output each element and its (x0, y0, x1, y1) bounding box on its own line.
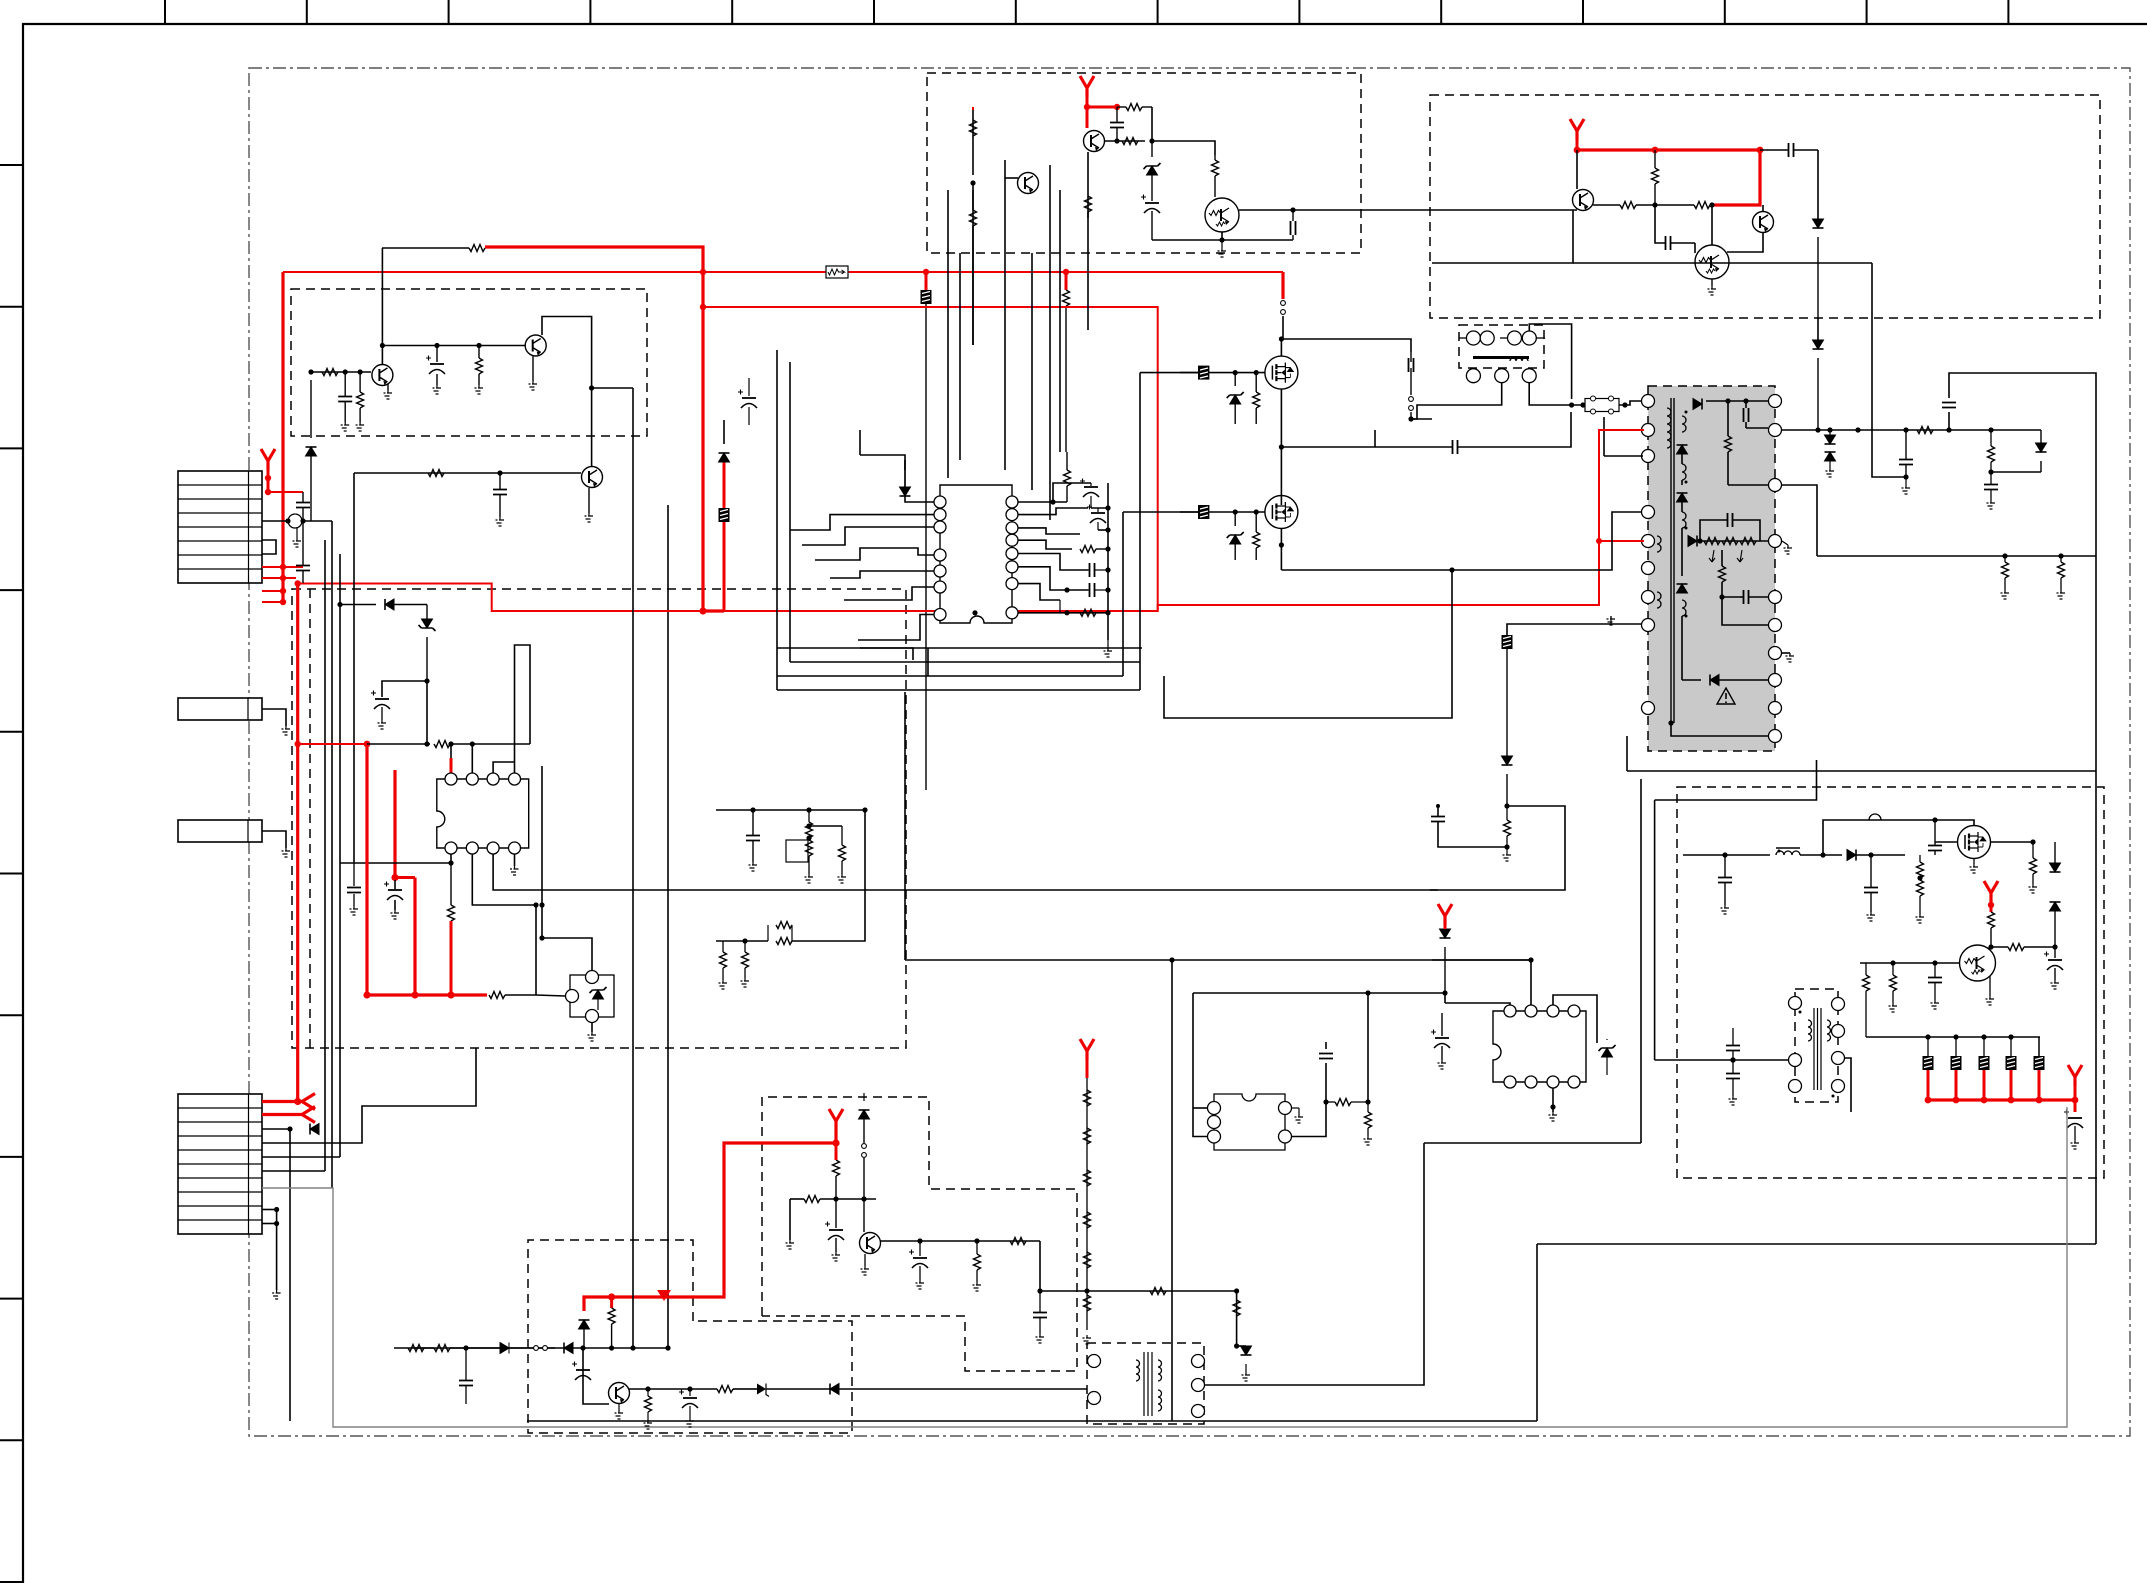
red Y mark (5V) (2068, 1065, 2082, 1086)
long h y890 (698, 889, 1438, 891)
wire y556 (1817, 555, 2096, 557)
Q13 emitter gnd (1989, 976, 1991, 996)
res R20 (1988, 912, 1995, 928)
transistor Q14 (860, 1233, 881, 1254)
cap C24 (1864, 888, 1878, 893)
Q3 base network (354, 472, 581, 474)
wire J2 down (1282, 316, 1284, 339)
IC U5 body (1493, 1011, 1586, 1082)
red drop x297 (296, 584, 299, 1102)
Q9 collector up (1711, 205, 1713, 245)
cap C3 (338, 397, 352, 402)
gnd stub CN1 (296, 527, 298, 538)
riser set U1 top (950, 470, 952, 485)
long v x1172 (1171, 960, 1173, 1421)
diode D10 (2050, 902, 2061, 911)
bead FB2 (921, 290, 932, 304)
black y1421 right (1537, 1420, 2096, 1422)
diode D1 (719, 453, 730, 462)
Q8 collector wire (1762, 205, 1764, 211)
wire T1 pin3 loop (1604, 455, 1643, 457)
boxC exit wire (1817, 318, 1819, 340)
inductor L2 (1869, 814, 1881, 820)
diode D13 (1502, 756, 1513, 765)
node A1 (308, 369, 313, 374)
T1 right pin 10 (1769, 730, 1782, 743)
Q8-Q9 link (1727, 233, 1763, 252)
red wire B box (1086, 97, 1089, 107)
T1 diode D11 (1693, 399, 1702, 410)
wire Q5 out (1239, 209, 1304, 211)
wire y771 left (1626, 736, 1628, 771)
transistor Q8 (1753, 212, 1774, 233)
zener ZD9 (757, 1384, 766, 1395)
U2 pin7 wire (471, 744, 473, 773)
CN4 wire (262, 831, 286, 848)
R4 to U3 (536, 995, 565, 996)
CN2 nested wires (262, 1040, 476, 1143)
U1 left pin 6 (934, 581, 946, 593)
res R35 (804, 1196, 820, 1203)
cap C5 (493, 490, 507, 495)
nested wires under U1 (777, 689, 1140, 691)
res R21 (2008, 944, 2024, 951)
transistor Q13 (digital) (1960, 945, 1996, 981)
wire to y1291 (1039, 1241, 1041, 1291)
transistor Q15 (609, 1383, 630, 1404)
T1 right pin grounds (1782, 652, 1790, 654)
cap C18 (1291, 221, 1296, 235)
res R33 (720, 952, 727, 968)
Q1 emitter gnd (387, 384, 389, 390)
U1 left pin 3 (934, 521, 946, 533)
red above bead FB1 (723, 462, 726, 508)
resistor R3 (469, 245, 485, 252)
U2 pin wires bottom (450, 854, 452, 863)
U5 top pin 4 (1568, 1005, 1580, 1017)
T1 out wire y430 (1781, 429, 2041, 431)
red stub 12V (1988, 902, 1994, 908)
res R28 (1504, 820, 1511, 836)
Q15 net (628, 1388, 648, 1390)
red standby path (584, 1130, 836, 1311)
routing rect 1 (776, 350, 778, 690)
transformer T3 dashed box (1795, 989, 1838, 1102)
diode D16b (564, 1343, 573, 1354)
T1 right pin 8 (1769, 674, 1782, 687)
transistor Q3 (582, 467, 603, 488)
diode D17 (830, 1384, 839, 1395)
gate wire feed1 (1140, 372, 1198, 374)
red Y mark (B+ rail) (1080, 76, 1094, 97)
T1 warning mark (1717, 688, 1735, 704)
red rail boxC (1576, 140, 1579, 150)
boxed resistor R1 on red rail (826, 266, 848, 278)
U2 top pin 1 (445, 773, 457, 785)
U1 right pin 9 (1006, 607, 1018, 619)
U5 top pin 1 (1504, 1005, 1516, 1017)
wire U5 right (1597, 1042, 1640, 1044)
Q11 source (1280, 528, 1282, 570)
bundle wire v332 (331, 521, 333, 1188)
wire x1452 T1 (1164, 570, 1452, 718)
mesh h2 (332, 862, 380, 864)
zener ZD5 (1602, 1048, 1613, 1057)
U1 right pin 11 (1006, 561, 1018, 573)
Q12 out (1990, 841, 2033, 843)
transistor Q4 (1084, 131, 1105, 152)
node x1452 (1449, 567, 1454, 572)
bead FB3 (288, 514, 302, 528)
T1 aux winding (1657, 536, 1661, 552)
connector CN4 (178, 820, 262, 842)
Q7 base resistor R13 (1593, 204, 1620, 206)
sub-circuit box H (bottom left) (528, 1240, 852, 1433)
Q10 drain wire (1280, 339, 1282, 356)
cap C31 (1431, 817, 1445, 822)
Q4 base wire (1104, 140, 1145, 142)
riser x1032 (1031, 253, 1033, 490)
Q4 down wire (1087, 152, 1089, 218)
U1 right pin 16 (1006, 496, 1018, 508)
zener ZD6 (422, 619, 433, 628)
diode D5 (1813, 219, 1824, 228)
HB lower wire (1281, 570, 1432, 588)
solid rect right (1430, 805, 1507, 807)
cap C21 (1453, 440, 1458, 454)
resistor R4 after bus (489, 992, 505, 999)
wire Q14 up (863, 1199, 865, 1232)
U1 right pin 13 (1006, 534, 1018, 546)
sub-circuit box B (top centre) (927, 73, 1361, 253)
pcap C34 (829, 1229, 843, 1231)
gate riser2 (1122, 512, 1124, 676)
diode D14 (385, 599, 394, 610)
wire x311 CN1 (303, 520, 332, 522)
transistor Q1 (372, 365, 393, 386)
T1 bottom wire (1671, 723, 1768, 736)
long riser x633 (632, 388, 634, 1348)
res R34 (742, 952, 749, 968)
T1 wire w5 (1722, 597, 1768, 625)
T1 centre tap wire (1690, 540, 1768, 542)
boxF left vert (1654, 800, 1656, 1060)
wire fuse to T1 (1619, 392, 1628, 405)
CN3 wire (262, 709, 286, 726)
U2 top pin 2 (466, 773, 478, 785)
red node CN2 (294, 1098, 301, 1105)
red 5V stub (2074, 1086, 2077, 1112)
wire L1 to diode (1800, 854, 1842, 856)
Q10 gate chain (1180, 372, 1265, 374)
riser x1050 (1049, 165, 1051, 520)
T1 left pin 1 (1642, 395, 1655, 408)
bead FB5 (1198, 505, 1209, 519)
T2 windings (1136, 1360, 1140, 1381)
Q15 gnd (618, 1404, 620, 1410)
wire FB2 down (925, 304, 927, 790)
res R22 (1890, 975, 1897, 991)
U2 pin5 loop (515, 645, 531, 773)
res R23 (1863, 975, 1870, 991)
red riser x1157 (703, 307, 1158, 611)
res R25 (1988, 446, 1995, 462)
relay K1 dashed box (1459, 325, 1544, 368)
U5 pin4 wire (1574, 985, 1640, 1005)
T3 pins (1789, 997, 1802, 1010)
resistor R7 (357, 392, 364, 408)
red drop to R2 (1065, 272, 1068, 290)
cap C38 (459, 1381, 473, 1386)
red stub aux (1086, 1060, 1089, 1078)
wire pin row (1430, 541, 1452, 718)
gate wire upper (1130, 372, 1180, 374)
red corner x1283 (1281, 272, 1284, 299)
cap C36 (1033, 1313, 1047, 1318)
U1 right pin 12 (1006, 548, 1018, 560)
U4 left wires (1193, 993, 1208, 1137)
wire left drop (789, 1199, 791, 1240)
frame ruler ticks top (165, 0, 2008, 24)
red Y mark (CN1 supply) (261, 449, 275, 470)
cap C20 (1409, 358, 1414, 372)
left bottom wire (311, 1347, 414, 1349)
T1 left pin 6 (1642, 562, 1655, 575)
pcap C39 (576, 1369, 590, 1371)
boxF left tall wire (1640, 779, 1642, 1143)
long wire CN2-r3 loop (290, 1129, 1087, 1452)
Q9 base from cap (1666, 236, 1671, 250)
bottom left riser (310, 1310, 312, 1348)
U1 right pin 14 (1006, 522, 1018, 534)
res R37 (974, 1254, 981, 1270)
mesh wire m1 (331, 521, 333, 583)
long riser x668 (667, 505, 669, 1348)
U1 right pin 10 (1006, 578, 1018, 590)
relay K1 coil (1510, 358, 1528, 361)
long h y960 (905, 959, 1531, 961)
transistor Q6 (1018, 173, 1039, 194)
U2 top pin 3 (487, 773, 499, 785)
CN2 wire r5 (262, 1156, 340, 1158)
zener ZD7 (1241, 1346, 1252, 1355)
black long y1421 (527, 1420, 1537, 1422)
pot P1 (786, 840, 808, 862)
Q14 emitter (864, 1254, 866, 1266)
U5 bottom pin 6 (1525, 1076, 1537, 1088)
transistor Q9 (digital) (1695, 245, 1729, 279)
T1 left pin 9 (1642, 702, 1655, 715)
transformer T2 dashed box (1087, 1343, 1204, 1424)
diode pair D11b (1825, 435, 1836, 444)
sub-circuit box A (standby osc) (291, 289, 647, 436)
U4 res net (1323, 1099, 1328, 1104)
long vert x355 (354, 583, 356, 1066)
cap C27 (1928, 978, 1942, 983)
resistor R11b (1126, 104, 1142, 111)
cap C30 (1984, 485, 1998, 490)
red rail y272 (283, 271, 1283, 273)
gnd stub y620 (1610, 616, 1612, 624)
U1 pcap C9 (1091, 512, 1105, 514)
vert x905 (904, 692, 906, 960)
wire loop around U1 a (860, 648, 913, 660)
T1 diode D12 (1677, 445, 1688, 454)
pcap C26 (2048, 959, 2062, 961)
red hot rail y247 (485, 247, 703, 611)
CN2 to diode wire (290, 1347, 414, 1349)
T1 winding w2 (1682, 416, 1686, 432)
diode D9 (2050, 863, 2061, 872)
boxF input wire (1683, 854, 1770, 856)
U1 cap C10 (1090, 563, 1095, 577)
U2 bottom pin 6 (466, 842, 478, 854)
wire to T2 (839, 1388, 1087, 1390)
Q10 source wire (1280, 389, 1282, 505)
resistor R6 (608, 1308, 615, 1324)
res column x1087 (1086, 1078, 1088, 1330)
CN2 pins 9-10 (262, 1209, 277, 1211)
res R38 (1010, 1238, 1026, 1245)
bead row (1923, 1056, 1934, 1070)
res R31 (839, 845, 846, 861)
shunt reg U3 (570, 975, 614, 1017)
pcap C32 (375, 698, 389, 700)
U2 right bus (535, 905, 537, 995)
relay K1 wiring (1529, 324, 1571, 399)
pcap C22 (1435, 1037, 1449, 1039)
U5 input net (1432, 992, 1445, 994)
T1 diode D13 (1677, 493, 1688, 502)
sub-circuit box D inner edge (309, 589, 311, 1048)
gate riser1 (1122, 373, 1124, 676)
red bus y1100 (1928, 1098, 2075, 1101)
HB bottom (1235, 559, 1281, 561)
transistor Q5 (digital) (1205, 198, 1239, 232)
cap C25 (1928, 846, 1942, 851)
wire loop around U1 b (927, 648, 929, 676)
T1 to bead wire (1644, 540, 1648, 542)
wire y1291 (1040, 1290, 1237, 1292)
U1 left pin 5 (934, 565, 946, 577)
IC U2 body (437, 779, 529, 848)
long vert x1872 (1872, 263, 1906, 477)
res pair R32 (776, 922, 792, 929)
wire Q5 emitter (1152, 232, 1222, 240)
bead FB4 (1198, 366, 1209, 380)
T1 winding w3 (1682, 464, 1686, 480)
T1 core (1670, 398, 1672, 723)
resistor R14 (1652, 168, 1659, 184)
riser x960 (959, 253, 961, 460)
pcap C28 (2068, 1117, 2082, 1119)
U1 bus v1108 (1107, 483, 1109, 640)
red Y mark (U5 supply) (1438, 904, 1452, 925)
T3 area caps (1726, 1046, 1740, 1051)
CN2 wire r4 (262, 1048, 476, 1143)
res R26 (2002, 562, 2009, 578)
transformer T1 block (shaded) (1648, 386, 1775, 751)
fuse F1 node (1580, 402, 1585, 407)
sub-circuit box G (bottom centre) (762, 1097, 1077, 1371)
black riser x340 (339, 583, 341, 1157)
red stubs to CN1 (262, 566, 303, 568)
T1 cap C13 (1744, 590, 1749, 604)
red Y mark (standby) (829, 1109, 843, 1130)
U1 comp pcap C8 (1084, 486, 1098, 488)
boxF top wires (1655, 760, 1817, 800)
Q1 base network (311, 371, 371, 373)
zener ZD2 (1147, 166, 1158, 175)
diode D15b (859, 1110, 870, 1119)
red riser x415 (413, 878, 416, 996)
res R41 (717, 1386, 733, 1393)
jumper J5 (534, 1346, 539, 1351)
mesh h y863 (311, 862, 380, 864)
diode D3 (306, 447, 317, 456)
wire y810 (716, 809, 865, 811)
Q12 drain wire (1935, 820, 1974, 826)
jumper J4 (862, 1144, 867, 1149)
resistor R17 (1253, 532, 1260, 548)
wire D10 down (2054, 911, 2056, 947)
red CN2 pin wedges (262, 1100, 302, 1103)
resistor R12 (1212, 160, 1219, 176)
sub-circuit box C (top right) (1430, 95, 2100, 318)
Q12 gnd (1973, 858, 1975, 864)
cap C19 (1789, 143, 1794, 157)
T1 snubber wire (1681, 453, 1683, 464)
T1 left pin 4 (1642, 506, 1655, 519)
T1 right pin 3 (1769, 479, 1782, 492)
U5 bottom wires (1552, 1088, 1554, 1112)
diode D8 (1847, 850, 1856, 861)
CN2 wire r6 (262, 1170, 325, 1172)
res R39 (434, 1345, 450, 1352)
U4 right wire (1291, 1063, 1326, 1137)
red branch bead riser (703, 609, 724, 612)
wire x292 bottom (292, 1347, 414, 1349)
half bridge mid node (1281, 446, 1375, 448)
zener ZD4 (1230, 535, 1241, 544)
U5 top pin 3 (1547, 1005, 1559, 1017)
pcap C4 (430, 363, 444, 365)
connector CN2 (178, 1094, 262, 1234)
T1 winding w4 (1682, 512, 1686, 528)
snubber loop (1948, 412, 1950, 430)
T1 right pin 7 (1769, 647, 1782, 660)
U4 riser x1368 (1367, 993, 1369, 1102)
gate riser1b (1122, 373, 1124, 512)
diode D7 (1440, 929, 1451, 938)
U5 bottom pin 7 (1547, 1076, 1559, 1088)
riser x1424 (1204, 1143, 1424, 1385)
pcap C37 (683, 1397, 697, 1399)
transistor Q2 (525, 335, 546, 356)
long wire y210 (1304, 209, 1577, 211)
T1 left pin 7 (1642, 591, 1655, 604)
U5 bottom pin 8 (1568, 1076, 1580, 1088)
relay K1 armature (1473, 356, 1529, 359)
red T1 mid-tap branch (1599, 540, 1644, 542)
wire x1818 down (1817, 150, 1819, 228)
HB gnd bus (1235, 423, 1281, 425)
wire x1236 down (1236, 1346, 1238, 1421)
long wire y890b (493, 889, 698, 891)
Q2 collector loop (542, 317, 592, 467)
res R42 (408, 1345, 424, 1352)
diode D6 (1813, 340, 1824, 349)
